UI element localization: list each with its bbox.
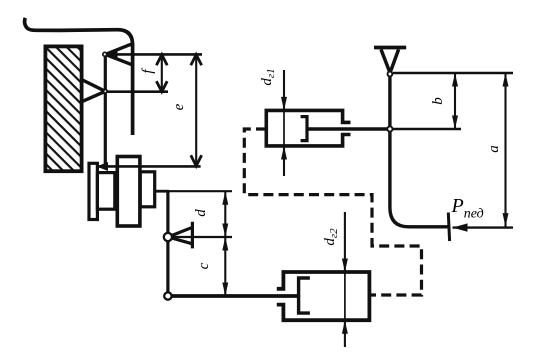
dimension dg2 line [344,212,346,272]
piston block left (medium rect) [97,173,114,210]
dimension d/c line [224,191,226,296]
node D bottom pivot [164,292,171,299]
ref line d top [168,190,232,192]
force application tick [448,213,449,242]
cable with hook and lever bar [25,18,133,135]
lower shoe triangle [82,80,106,102]
ref line c/d middle [168,236,232,238]
force arrowhead P ped [453,223,468,231]
upper shoe triangle [105,43,133,65]
rod to rear cylinder [168,294,299,298]
brake drum wall (hatched) [45,46,81,171]
node A upper shoe pivot [103,52,107,56]
ref line e bottom [97,165,201,168]
ref line f/e top [106,53,202,56]
svg-text:b: b [430,97,446,105]
node C fulcrum pivot [164,233,172,241]
svg-text:c: c [196,262,212,269]
ref line f bottom [105,90,168,93]
vertical link between shoes [104,54,107,166]
vertical link rod [166,191,169,296]
dimension a line [504,73,506,227]
pressure plate (thin rect) [89,163,97,219]
svg-text:d: d [193,209,209,217]
node F pushrod pivot [387,126,392,131]
dimension e line [195,54,197,166]
force arrow at upper shoe node [106,50,118,58]
cylinder body (big rect) [117,157,140,227]
master cylinder pushrod [307,127,391,130]
wheel cylinder U2 outer [277,272,370,320]
dimension dg1 line [283,70,285,110]
node B lower shoe pivot [104,90,108,94]
pedal lever [390,74,449,227]
pedal pad legs [381,49,399,71]
node E pedal top pivot [388,72,393,77]
svg-text:e: e [171,103,187,110]
dimension b line [454,73,456,129]
master cylinder U1 outer [266,110,350,145]
svg-text:a: a [486,145,502,153]
pedal pad bar [374,46,406,50]
master cylinder piston [301,117,307,141]
wire caliper to link [155,190,169,193]
ref line a/b top [393,72,513,74]
caliper push arrow [97,162,109,171]
lever fulcrum triangle [168,222,192,249]
dimension f line [161,54,163,92]
piston block right (right rect) [140,172,154,207]
wheel cylinder piston [299,278,310,313]
force line P ped [453,226,514,228]
hydraulic dashed line [244,129,421,295]
ref line b bottom [391,128,461,130]
